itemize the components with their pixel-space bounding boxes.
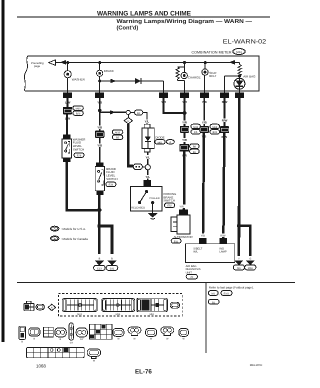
row2 icon double round 1 bbox=[128, 327, 141, 340]
brake switch bottom pin bbox=[96, 191, 103, 195]
combination meter box outline bbox=[24, 56, 259, 91]
wire L/W label bbox=[64, 100, 72, 104]
svg-text:E13: E13 bbox=[97, 268, 102, 271]
note oval B1 bbox=[208, 299, 219, 304]
parking brake switch label bbox=[164, 192, 178, 203]
svg-text:B15: B15 bbox=[213, 131, 218, 134]
row2 icon double round 2 bbox=[161, 327, 174, 340]
svg-text:Y/L: Y/L bbox=[146, 155, 151, 159]
node seat belt bbox=[204, 61, 207, 64]
svg-text:E41: E41 bbox=[110, 268, 115, 271]
connector M33 inline brake bbox=[95, 131, 104, 139]
LED AIR BAG bbox=[234, 74, 256, 92]
diode D1 bbox=[135, 78, 141, 84]
svg-text:19: 19 bbox=[98, 133, 102, 137]
legend model A bbox=[51, 226, 87, 231]
row2 icon grid box bbox=[43, 327, 53, 337]
connector strip S2 bbox=[102, 299, 135, 316]
resistor R1 with lamp CHARGE bbox=[176, 63, 201, 93]
wire R/W label d bbox=[221, 100, 229, 104]
note oval M1 bbox=[208, 291, 220, 296]
svg-text:M33: M33 bbox=[193, 126, 198, 129]
svg-text:E34: E34 bbox=[109, 184, 114, 187]
model marker A oval bbox=[166, 140, 174, 145]
svg-text:DIODE: DIODE bbox=[155, 135, 164, 139]
svg-text:BRAKE: BRAKE bbox=[104, 69, 114, 73]
diode box D2 bbox=[142, 124, 165, 152]
svg-text:Refer to last page (Foldout pa: Refer to last page (Foldout page). bbox=[209, 286, 254, 290]
row2 icon pill W2 bbox=[146, 329, 157, 341]
footer bbox=[36, 363, 262, 376]
wire colD bbox=[221, 98, 229, 126]
meter pin 23 bbox=[95, 92, 104, 98]
connector ref oval E28 bbox=[74, 153, 84, 158]
diamond U model marker bbox=[124, 115, 132, 124]
svg-text:: Models for U.S.A.: : Models for U.S.A. bbox=[61, 227, 86, 231]
svg-text:WASHER: WASHER bbox=[72, 77, 86, 81]
connector ref oval B2 bbox=[112, 135, 122, 140]
wire Y/B label bbox=[96, 100, 104, 104]
svg-text:Y/R: Y/R bbox=[179, 206, 183, 209]
note box bbox=[206, 283, 254, 353]
brake fluid level switch SW2 bbox=[95, 167, 117, 191]
connector ref oval B8 bbox=[190, 144, 200, 149]
svg-text:M66: M66 bbox=[248, 267, 254, 270]
connector ref oval M33 b bbox=[112, 130, 122, 135]
connector oval inline B1 bbox=[135, 110, 143, 115]
wire Y/R label b bbox=[181, 100, 189, 104]
wire brake down bbox=[98, 195, 101, 226]
wire washer to switch bbox=[66, 114, 68, 134]
connector ref oval M68 bbox=[210, 124, 220, 129]
connector ref oval E34 bbox=[106, 182, 116, 187]
parking brake switch SW3 bbox=[131, 187, 162, 213]
page arrow M1 bbox=[233, 260, 244, 270]
svg-text:M68: M68 bbox=[212, 126, 217, 129]
alternator pin bbox=[179, 209, 188, 215]
wire from diamond down bbox=[128, 124, 133, 166]
meter pin 22 bbox=[220, 92, 229, 98]
separator line bbox=[17, 282, 295, 283]
svg-text:M61: M61 bbox=[150, 313, 155, 316]
connector inline colD bbox=[220, 126, 229, 133]
preceding page note bbox=[31, 61, 44, 68]
svg-text:E101: E101 bbox=[224, 293, 230, 296]
wire colD long bbox=[219, 133, 228, 238]
svg-text:M1: M1 bbox=[237, 267, 241, 270]
svg-text:U: U bbox=[127, 120, 129, 123]
svg-text:MEL187D: MEL187D bbox=[250, 363, 262, 367]
lamp BRAKE bbox=[97, 63, 114, 93]
wire Y/R mid colB bbox=[181, 133, 189, 144]
wire branch to IND lamp column bbox=[225, 76, 240, 92]
wire B letters bbox=[99, 258, 114, 261]
connector M60 inline washer bbox=[63, 107, 72, 115]
meter pin 26 bbox=[180, 92, 189, 98]
svg-text:BELT: BELT bbox=[209, 74, 216, 78]
svg-text:24: 24 bbox=[66, 94, 70, 98]
wire from diode to pin column bbox=[141, 81, 164, 92]
node charge bbox=[183, 61, 186, 64]
row2 icon pill B bbox=[29, 328, 40, 341]
wire left ground down bbox=[98, 226, 101, 254]
connector ref oval E5 bbox=[191, 130, 201, 135]
combination meter label bbox=[192, 50, 232, 54]
wire Y/B label above conn bbox=[96, 125, 104, 129]
wire brake column bbox=[99, 98, 101, 131]
svg-text:M33: M33 bbox=[115, 131, 120, 134]
washer fluid level switch SW1 bbox=[62, 137, 85, 158]
connector pill joint bbox=[133, 164, 142, 170]
joint circle parking bbox=[142, 165, 150, 170]
wire to diode with arrow bbox=[100, 79, 136, 83]
row2 icon round pair 2 bbox=[76, 328, 87, 341]
svg-text:G: G bbox=[249, 258, 251, 261]
wire split right bbox=[239, 226, 250, 256]
air bag unit pin ind bbox=[220, 238, 227, 244]
page arrow E41 bbox=[106, 261, 118, 271]
row3 strip connector bbox=[26, 347, 84, 357]
wire colB to alternator bbox=[178, 152, 189, 210]
ground parking brake bbox=[148, 213, 158, 219]
meter pin 21 bbox=[159, 92, 168, 98]
svg-text:PULLED: PULLED bbox=[150, 197, 160, 200]
svg-text:GY: GY bbox=[80, 338, 84, 341]
wire Y/R label colB bbox=[181, 120, 189, 124]
svg-text:13: 13 bbox=[66, 109, 70, 113]
svg-text:SWITCH: SWITCH bbox=[164, 199, 175, 203]
wire washer column bbox=[67, 98, 69, 107]
svg-text:M60: M60 bbox=[76, 107, 81, 110]
svg-text:SWITCH: SWITCH bbox=[106, 177, 117, 181]
junction colE split bbox=[237, 224, 241, 228]
row2 icon pill W1 bbox=[113, 329, 124, 341]
svg-text:M61: M61 bbox=[158, 141, 163, 144]
svg-text:A: A bbox=[51, 307, 53, 310]
node brake lamp bottom bbox=[98, 80, 101, 83]
svg-text:E41: E41 bbox=[174, 240, 179, 243]
legend model B bbox=[51, 236, 89, 241]
wire colA elbow to colB bbox=[164, 98, 185, 113]
svg-text:page: page bbox=[34, 64, 41, 68]
svg-text:EL-WARN-02: EL-WARN-02 bbox=[223, 39, 267, 46]
svg-text:28: 28 bbox=[238, 94, 242, 98]
row2 big grid connector bbox=[89, 324, 111, 339]
washer switch bottom pin bbox=[63, 158, 70, 162]
wire colB upper bbox=[184, 98, 186, 126]
svg-text:R/W: R/W bbox=[220, 235, 226, 238]
svg-text:Y/L: Y/L bbox=[146, 175, 151, 179]
row2 icon bottle bbox=[69, 323, 74, 345]
wire Y/R label bbox=[160, 100, 168, 104]
air bag diagnosis unit box bbox=[185, 244, 234, 263]
washer switch top pin bbox=[63, 134, 71, 139]
svg-text:21: 21 bbox=[162, 94, 166, 98]
wire split to right ground bbox=[99, 226, 112, 254]
wire letters colE bbox=[238, 258, 251, 261]
connector ref oval E6 bbox=[190, 149, 200, 154]
connector ref oval M61 bbox=[155, 140, 165, 145]
alternator box G1 bbox=[171, 215, 193, 239]
connector face oval M61 bbox=[36, 304, 44, 310]
svg-text:E52: E52 bbox=[167, 205, 172, 208]
connector inline colC bbox=[200, 126, 209, 133]
svg-text:GY: GY bbox=[70, 342, 74, 345]
face marker diamond A bbox=[48, 304, 56, 310]
connector inline colB lower bbox=[179, 144, 189, 152]
wire Y/B label c bbox=[200, 100, 208, 104]
connector ref oval E52 bbox=[165, 203, 175, 208]
connector ref oval Z2 bbox=[186, 274, 197, 279]
junction washer brake bbox=[97, 208, 101, 212]
note oval E101 bbox=[221, 291, 232, 296]
svg-text:22: 22 bbox=[223, 94, 227, 98]
air bag unit label bbox=[186, 265, 201, 274]
svg-text:LAMP: LAMP bbox=[219, 251, 227, 254]
svg-text:AIR BAG: AIR BAG bbox=[243, 74, 256, 78]
svg-text:Y/B: Y/B bbox=[97, 125, 102, 129]
svg-text:CHARGE: CHARGE bbox=[188, 75, 201, 79]
parking brake switch pin bbox=[144, 180, 151, 186]
dashed group box bbox=[58, 294, 182, 316]
connector ref oval M33 c bbox=[191, 124, 201, 129]
svg-text:25: 25 bbox=[203, 94, 207, 98]
connector ref oval E41 b bbox=[171, 239, 181, 244]
row2 icon tall connector bbox=[19, 326, 25, 343]
connector M24 oval bbox=[233, 49, 245, 55]
svg-text:R/W: R/W bbox=[222, 119, 228, 123]
svg-text:E28: E28 bbox=[77, 155, 82, 158]
svg-text:A: A bbox=[169, 141, 171, 144]
lamp SEAT BELT bbox=[202, 63, 217, 93]
row2 icon round pair bbox=[55, 328, 67, 341]
air bag unit pin sbelt bbox=[199, 238, 206, 244]
svg-text:26: 26 bbox=[183, 94, 187, 98]
connector ref oval M60 bbox=[73, 106, 83, 111]
svg-text:B20: B20 bbox=[76, 113, 81, 116]
row3 icon connector bbox=[87, 349, 100, 363]
svg-text:44: 44 bbox=[183, 128, 187, 132]
connector strip S1 bbox=[62, 299, 97, 316]
wire washer down to junction bbox=[67, 162, 100, 210]
wire Y/B label colC bbox=[200, 120, 208, 124]
svg-text:: Models for Canada: : Models for Canada bbox=[61, 237, 88, 241]
svg-text:W/L: W/L bbox=[193, 251, 198, 254]
wire joint to corner bbox=[130, 111, 134, 113]
wire L/W lower label bbox=[64, 117, 72, 121]
wire to diode box bbox=[143, 112, 151, 124]
connector ref oval B20 bbox=[73, 111, 83, 116]
svg-text:SWITCH: SWITCH bbox=[73, 148, 84, 152]
meter pin 24 bbox=[63, 92, 72, 98]
lamp WASHER bbox=[64, 63, 86, 93]
page arrow M66 bbox=[245, 260, 256, 270]
meter pin 28 bbox=[235, 92, 244, 98]
svg-text:11: 11 bbox=[203, 128, 206, 132]
svg-text:M24: M24 bbox=[236, 50, 242, 54]
svg-text:(Cont’d): (Cont’d) bbox=[117, 24, 139, 31]
connector ref oval B15 bbox=[210, 130, 220, 135]
svg-text:Y/B: Y/B bbox=[202, 121, 207, 125]
wire Y/L to parking pin bbox=[144, 170, 152, 181]
wire bus with direction arrow bbox=[58, 60, 240, 65]
svg-text:RELEASED: RELEASED bbox=[131, 206, 145, 209]
junction brake node bbox=[98, 109, 101, 112]
svg-text:Y/B: Y/B bbox=[97, 144, 102, 148]
wire colC upper bbox=[203, 98, 205, 126]
svg-text:30: 30 bbox=[223, 128, 227, 132]
svg-text:M1: M1 bbox=[212, 293, 216, 296]
connector face icon small plug bbox=[24, 301, 34, 310]
node brake bbox=[98, 61, 101, 64]
open arrow to preceding page bbox=[49, 60, 58, 66]
wire Y/B to brake switch bbox=[96, 138, 104, 162]
connector strip S3 bbox=[137, 298, 168, 316]
wire colE airbag down bbox=[238, 98, 241, 256]
face marker oval R bbox=[170, 302, 179, 308]
svg-text:COMBINATION METER: COMBINATION METER bbox=[192, 50, 232, 54]
wire colC long bbox=[199, 133, 208, 238]
brake switch top pin bbox=[96, 162, 103, 167]
svg-text:Y/L: Y/L bbox=[145, 120, 150, 124]
svg-text:M33: M33 bbox=[116, 313, 121, 316]
node washer bbox=[66, 61, 69, 64]
svg-text:23: 23 bbox=[98, 94, 102, 98]
page arrow E13 bbox=[94, 261, 106, 271]
node air bag bbox=[238, 74, 241, 77]
row2 icon pill W3 bbox=[179, 329, 189, 341]
meter pin 25 bbox=[200, 92, 209, 98]
svg-text:1068: 1068 bbox=[36, 364, 46, 369]
resistor R2 air bag bbox=[238, 63, 241, 76]
connector inline colB upper bbox=[180, 126, 189, 133]
wire Y/L above joint bbox=[144, 152, 152, 165]
svg-text:EL-76: EL-76 bbox=[135, 369, 152, 376]
wire to joint circle with arrow bbox=[100, 110, 127, 114]
svg-text:M24: M24 bbox=[77, 313, 82, 316]
header bbox=[17, 11, 270, 46]
junction colB bbox=[183, 111, 187, 115]
joint circle bbox=[126, 110, 130, 114]
svg-text:Warning Lamps/Wiring Diagram —: Warning Lamps/Wiring Diagram — WARN — bbox=[117, 18, 253, 25]
svg-text:Y/B: Y/B bbox=[201, 234, 205, 237]
junction split ground bbox=[97, 224, 101, 228]
